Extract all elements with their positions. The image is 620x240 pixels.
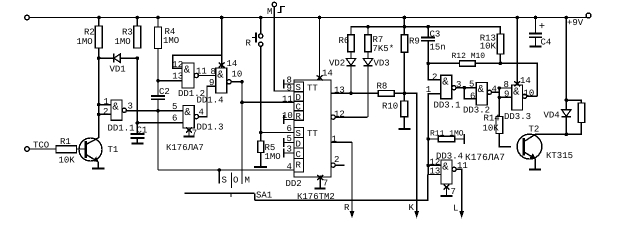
wire pin8 line [499, 87, 512, 89]
svg-text:6: 6 [287, 124, 292, 134]
ground C1 [131, 143, 143, 145]
wire DD1 pin14 power [221, 18, 223, 69]
svg-text:R12 M10: R12 M10 [452, 52, 486, 61]
output 1 [331, 135, 352, 145]
arrow R out [331, 142, 354, 218]
svg-text:TT: TT [307, 129, 318, 139]
node R5 top / pin6 [259, 131, 263, 135]
node pin12 [426, 164, 430, 168]
diode VD1 [99, 54, 138, 75]
svg-text:VD1: VD1 [110, 65, 126, 75]
node VD4 top [565, 98, 569, 102]
svg-text:VD4: VD4 [544, 111, 560, 121]
svg-text:3: 3 [456, 80, 461, 90]
svg-text:1MO: 1MO [265, 152, 281, 162]
svg-text:10: 10 [282, 111, 293, 121]
svg-text:9: 9 [287, 83, 292, 93]
wire R11 right stub [455, 134, 465, 144]
transistor T2 KT315 [517, 125, 573, 162]
svg-text:1MO: 1MO [77, 37, 93, 47]
svg-text:R6: R6 [339, 36, 350, 46]
wire R5 to ground [260, 153, 262, 167]
wire DD3.4 out to L arrow [456, 169, 462, 212]
svg-text:К176ЛА7: К176ЛА7 [166, 143, 204, 153]
arrow K head [409, 203, 420, 219]
svg-text:S: S [296, 129, 301, 139]
svg-text:1MO: 1MO [115, 37, 131, 47]
svg-text:C: C [296, 150, 302, 160]
svg-text:SA1: SA1 [256, 191, 272, 201]
gate DD3.4 [430, 152, 505, 185]
wire T1 collector continues to DD1.1 inputs [98, 105, 100, 138]
svg-text:10K: 10K [59, 156, 76, 166]
svg-text:T1: T1 [108, 145, 119, 155]
wire SA1 bottom long wire to DD2 pin4 [158, 169, 294, 171]
resistor R3 1M0 [115, 26, 141, 48]
wire DD2 pin6 [261, 132, 294, 134]
wire secondary +9V branch rail [351, 27, 500, 35]
resistor R7 7K5 [365, 35, 394, 54]
wire rail to R4 [157, 18, 159, 28]
pin7 X mark DD3 ground [441, 185, 456, 198]
svg-text:DD1.4: DD1.4 [197, 96, 224, 106]
svg-text:1MO: 1MO [163, 36, 179, 46]
wire DD3.2 out to DD3.3 pins [492, 91, 500, 93]
svg-text:R: R [296, 161, 302, 171]
svg-text:3: 3 [287, 145, 292, 155]
node pin6 DD1.3 tap [136, 121, 140, 125]
svg-text:К176ТМ2: К176ТМ2 [297, 192, 335, 202]
node R9 branch [403, 25, 407, 29]
wire TCO to R1 [29, 148, 56, 150]
wire column down to M contact [241, 102, 243, 184]
terminal left input [25, 15, 30, 20]
load element (sound head) [566, 100, 584, 134]
node pin1 [97, 103, 101, 107]
wire DD1.2 pin13 [158, 80, 182, 82]
wire out13 through R8 to R9 node [351, 92, 378, 94]
node VD2 out13 [349, 92, 353, 96]
node pin8 [498, 86, 501, 89]
wire rail to VD4 load branch [565, 18, 567, 101]
svg-text:10K: 10K [483, 124, 500, 134]
wire T1 collector column [98, 48, 100, 138]
node out3 [463, 86, 467, 90]
svg-text:DD3.4: DD3.4 [436, 152, 463, 162]
capacitor C2 [151, 87, 170, 99]
svg-text:C3: C3 [430, 30, 441, 40]
node rail-DD2pin14 [318, 16, 322, 20]
wire VD1 anode down to C1 [136, 58, 138, 134]
svg-text:&: & [112, 101, 119, 113]
pin 3 stub [284, 145, 294, 158]
pin 8 stub [284, 76, 294, 89]
svg-text:4: 4 [199, 108, 204, 118]
wire DD1.4 out to DD2 column [231, 81, 242, 83]
wire R12 right to R13 and DD3.3 out [475, 63, 537, 96]
wire DD1.1 out to DD1.3 pin5 [126, 110, 183, 112]
resistor R10 [382, 101, 408, 117]
resistor R2 1M0 [77, 26, 103, 48]
wire +9V top rail [29, 17, 587, 19]
svg-text:9: 9 [504, 90, 509, 100]
resistor R1 10K [56, 137, 77, 166]
node R8 R9 R10 [403, 92, 407, 96]
wire T1 emitter to ground [97, 162, 99, 169]
node rail-R2 [97, 16, 101, 20]
switch SA1 labels [222, 176, 250, 186]
wire R4 down to C2 [157, 49, 159, 97]
resistor R5 1M0 [258, 141, 281, 162]
switch SA1 O contact stub [231, 173, 233, 189]
resistor R9 [401, 35, 420, 53]
svg-text:M: M [267, 7, 272, 17]
svg-text:TT: TT [307, 84, 318, 94]
svg-text:R2: R2 [84, 28, 95, 38]
svg-text:O: O [233, 176, 238, 186]
svg-text:КТ315: КТ315 [546, 151, 573, 161]
diode VD4 [544, 100, 572, 134]
ground T2 [529, 169, 541, 171]
svg-text:6: 6 [172, 114, 177, 124]
svg-text:&: & [513, 86, 520, 98]
pin 10 stub [282, 111, 294, 124]
svg-text:DD2: DD2 [286, 179, 302, 189]
svg-text:&: & [184, 107, 191, 119]
node R7 branch [366, 25, 370, 29]
pin14 X mark DD2 [317, 69, 333, 81]
svg-text:DD1.3: DD1.3 [197, 123, 224, 133]
svg-text:R14: R14 [484, 114, 500, 124]
wire pin9 line [499, 96, 512, 98]
resistor R6 [339, 35, 355, 52]
svg-text:14: 14 [227, 59, 238, 69]
diode VD3 [363, 52, 389, 118]
svg-text:14: 14 [322, 69, 333, 79]
wire DD1.2 pin12 tied to pin14 line [173, 55, 222, 68]
svg-text:7: 7 [451, 187, 456, 197]
svg-text:L: L [453, 204, 458, 214]
svg-text:8: 8 [211, 67, 216, 77]
svg-text:+: + [539, 21, 545, 33]
node VD1 anode [136, 56, 140, 60]
wire DD3.1 out to DD3.2 pins [456, 87, 476, 89]
svg-text:C2: C2 [159, 87, 170, 97]
svg-text:3: 3 [128, 102, 133, 112]
svg-text:7: 7 [192, 129, 197, 139]
wire R7 to branch [367, 27, 369, 35]
svg-text:+9V: +9V [567, 18, 584, 28]
capacitor C1 [130, 126, 147, 139]
pin14 X mark DD1 [219, 59, 238, 69]
svg-text:2: 2 [334, 155, 339, 165]
wire M down to DD2 pin9 [274, 7, 294, 91]
wire C3 node to DD3.1 pin2 [428, 63, 441, 80]
flip-flop DD2 K176TM2 [286, 80, 335, 202]
svg-text:&: & [184, 64, 191, 76]
svg-text:VD2: VD2 [329, 59, 345, 69]
button SB R (reset) [246, 18, 263, 49]
node DD1.4 out [240, 80, 244, 84]
svg-text:К176ЛА7: К176ЛА7 [465, 152, 505, 163]
svg-text:4: 4 [287, 162, 292, 172]
svg-text:S: S [222, 176, 227, 186]
svg-text:11: 11 [282, 95, 293, 105]
diode VD2 [329, 52, 356, 94]
wire DD3.4 pin12 [428, 164, 441, 166]
svg-text:R9: R9 [409, 37, 420, 47]
wire DD3.4 pin13 [428, 174, 441, 176]
wire SA1 lower line to DD3.4 inputs [255, 175, 428, 201]
wire DD1.1 pin2 [99, 113, 111, 115]
svg-text:T2: T2 [529, 125, 540, 135]
wire T2 collector to load node [535, 133, 567, 135]
svg-text:R: R [296, 112, 302, 122]
resistor R11 1M0 [430, 130, 464, 142]
svg-text:15n: 15n [430, 43, 446, 53]
node C2 pin5 line [156, 109, 160, 113]
svg-text:R3: R3 [122, 28, 133, 38]
svg-text:5: 5 [172, 102, 177, 112]
wire DD1.1 pin1 [99, 104, 111, 106]
svg-text:D: D [296, 139, 301, 149]
svg-text:10: 10 [232, 70, 243, 80]
wire R12 left [428, 62, 459, 64]
switch SA1 bar [185, 191, 273, 201]
capacitor C3 15n [421, 27, 446, 64]
svg-text:8: 8 [504, 80, 509, 90]
gate DD3.1 [426, 73, 462, 111]
svg-text:5: 5 [469, 80, 474, 90]
svg-text:R11 1MO: R11 1MO [430, 130, 464, 139]
svg-text:M: M [245, 176, 250, 186]
node pin2 [97, 113, 101, 117]
output 12 [331, 109, 368, 119]
svg-text:R: R [246, 39, 252, 49]
transistor T1 [79, 138, 118, 163]
svg-text:DD3.1: DD3.1 [434, 101, 461, 111]
svg-text:DD1.1: DD1.1 [108, 124, 135, 134]
wire rail through R9 to node [403, 18, 405, 35]
pin7 X mark DD1 ground [184, 128, 198, 139]
node rail-VD4 [565, 16, 569, 20]
resistor R4 1M0 [155, 27, 180, 49]
arrow L head [453, 204, 464, 219]
wire node to K corner [404, 93, 416, 212]
resistor R14 10K [483, 114, 503, 134]
wire rail to R3 [136, 18, 138, 27]
wire DD1.4 out column down to DD2 pin11 and SA1 M contact [241, 82, 243, 103]
wire DD1.3 out up to DD1.4 pin9 [199, 86, 216, 116]
gate DD1.2 [172, 60, 207, 99]
wire DD3.3 out to R13 node [527, 95, 538, 97]
svg-text:D: D [296, 93, 301, 103]
svg-text:R10: R10 [382, 102, 398, 112]
wire DD1.2 out to DD1.4 pin8 [198, 75, 216, 77]
node S contact [218, 168, 222, 172]
svg-text:C: C [296, 102, 302, 112]
wire C2 to pin5 line [157, 99, 159, 111]
pin14 X mark DD3 [514, 76, 531, 86]
output 2 [331, 155, 345, 167]
node DD1.2 pin13 tap [156, 79, 160, 83]
node R11 left [426, 137, 430, 141]
svg-text:12: 12 [334, 109, 345, 119]
node VD1 cathode [97, 56, 101, 60]
ground R5 [254, 166, 267, 168]
wire DD3.1 pin1 from R11 column [428, 94, 441, 175]
gate DD3.2 [463, 80, 497, 116]
svg-text:5: 5 [287, 134, 292, 144]
wire out3 to pin6 [464, 88, 476, 99]
output 13 [331, 86, 351, 96]
node rail-R3 [136, 16, 140, 20]
wire DD3 pin14 power [516, 18, 518, 86]
wire pin9 node down to R14 [498, 97, 500, 116]
node rail-R4 [156, 16, 160, 20]
node pin11 [240, 101, 244, 105]
wire R11 left [428, 138, 438, 140]
svg-text:1: 1 [104, 97, 109, 107]
node C3 branch [426, 25, 430, 29]
svg-text:R8: R8 [377, 82, 388, 92]
resistor R13 10K [480, 34, 504, 55]
svg-text:14: 14 [520, 76, 531, 86]
ground T1 [92, 168, 105, 170]
svg-text:VD3: VD3 [374, 59, 390, 69]
node pin9 [498, 96, 501, 99]
wire R14 to T2 base [499, 134, 511, 147]
resistor R12 M10 [452, 52, 486, 66]
terminal TCO [25, 141, 50, 152]
svg-text:R1: R1 [60, 137, 71, 147]
pin 5 stub [284, 134, 294, 147]
svg-text:DD3.3: DD3.3 [504, 112, 531, 122]
wire C1 to ground [136, 138, 138, 144]
capacitor C4 electrolytic [529, 18, 551, 48]
wire R4 column down to SA1 wire [157, 111, 159, 170]
wire R1 to T1 base [77, 148, 86, 150]
svg-text:S: S [296, 83, 301, 93]
svg-text:7K5*: 7K5* [373, 44, 395, 54]
svg-text:2: 2 [432, 73, 437, 83]
switch SA1 S contact stub [218, 170, 220, 184]
svg-text:C1: C1 [137, 126, 148, 136]
svg-text:1: 1 [332, 135, 337, 145]
wire T2 emitter to ground [534, 159, 536, 170]
svg-text:7: 7 [323, 179, 328, 189]
node R13 bottom [499, 62, 503, 66]
svg-text:&: & [442, 161, 449, 173]
svg-text:10K: 10K [480, 42, 497, 52]
pin7 X mark DD2 ground [315, 175, 329, 189]
node rail-DD1pin14 [220, 16, 224, 20]
gate DD1.4 [197, 67, 243, 106]
svg-text:2: 2 [103, 107, 108, 117]
ground C4 [530, 45, 542, 47]
terminal +9V [567, 13, 591, 28]
svg-text:&: & [478, 84, 485, 96]
gate DD1.3 [172, 102, 224, 133]
svg-text:6: 6 [470, 92, 475, 102]
wire DD1.3 pin6 [137, 122, 183, 124]
svg-text:R: R [344, 203, 350, 213]
terminal M metronome input [267, 2, 285, 17]
node rail-SB1 [259, 16, 263, 20]
svg-text:K: K [409, 203, 415, 213]
wire R10 to ground [403, 117, 405, 129]
wire DD2 pin11 [242, 101, 294, 103]
node rail-DD3pin14 [515, 16, 519, 20]
svg-text:&: & [442, 76, 449, 88]
wire rail to R2 [98, 18, 100, 27]
node rail-C4 [534, 16, 538, 20]
gate DD1.1 [103, 97, 135, 134]
wire R button down to R5 / DD2 pin6 [260, 46, 262, 141]
svg-text:&: & [217, 69, 224, 81]
gate DD3.3 [504, 80, 535, 122]
node VD4 bottom [565, 133, 569, 137]
wire R13 bottom [499, 54, 501, 63]
resistor R8 [377, 82, 395, 97]
node C3 R12 pin2 [426, 62, 430, 66]
wire DD2 pin14 power [319, 18, 321, 81]
svg-text:C4: C4 [541, 38, 552, 48]
node rail-R9 [403, 16, 407, 20]
ground R10 [398, 128, 410, 130]
